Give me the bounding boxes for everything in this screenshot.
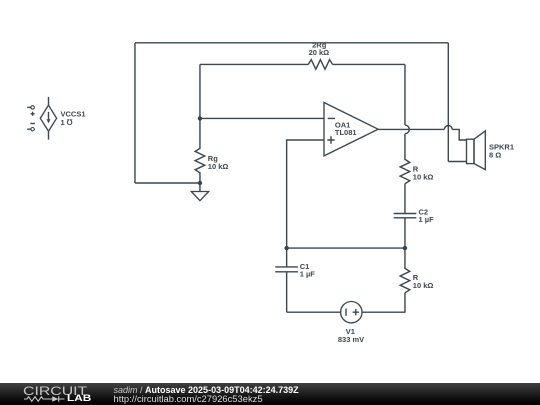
resistor R top right [400,134,433,184]
svg-text:833 mV: 833 mV [338,335,364,344]
footer text [114,385,299,395]
wire inverting input [200,117,324,119]
wire speaker bottom terminal [448,161,466,163]
wire inverting node vertical [199,64,201,140]
wire hop vertical over output [405,125,409,134]
svg-text:1 µF: 1 µF [419,215,435,224]
wire non-inverting input [287,140,324,248]
resistor R bottom right [400,248,433,293]
svg-text:VCCS1: VCCS1 [61,110,86,119]
wire outer loop bottom to ground node [135,182,200,184]
svg-text:10 kΩ: 10 kΩ [208,162,229,171]
svg-text:10 kΩ: 10 kΩ [413,281,434,290]
node junction at ground [198,181,202,185]
VCCS1 voltage-controlled current source [27,97,85,140]
wire output to speaker top [452,129,466,140]
resistor Rg [195,140,228,183]
wire 2Rg left lead [200,63,308,65]
wire right branch top vertical [404,64,406,125]
wire outer loop top [135,42,448,44]
resistor 2Rg [308,41,332,70]
voltage source V1 [338,302,364,344]
svg-text:10 kΩ: 10 kΩ [413,172,434,181]
wire outer loop left [134,43,136,183]
ground [191,183,208,201]
CircuitLab logo [23,384,87,398]
wire bottom right [362,293,405,312]
op-amp OA1 [324,103,378,156]
capacitor C2 [394,184,434,248]
node junction right branch [403,246,407,250]
svg-text:20 kΩ: 20 kΩ [309,48,330,57]
capacitor C1 [275,248,315,312]
wire right vertical to speaker bottom [447,43,449,162]
svg-text:8 Ω: 8 Ω [489,151,501,160]
wire middle horizontal [287,247,405,249]
footer bar [0,383,540,405]
wire op-amp output [378,128,444,130]
wire 2Rg right lead [333,63,405,65]
wire hop horizontal over right vertical [444,125,452,129]
node junction at non-inverting branch [284,246,288,250]
speaker SPKR1 [467,131,515,170]
svg-text:1 µF: 1 µF [300,270,316,279]
svg-text:1 ℧: 1 ℧ [61,118,73,127]
svg-text:TL081: TL081 [335,128,357,137]
wire bottom left [287,311,341,313]
node junction at inverting input [198,116,202,120]
